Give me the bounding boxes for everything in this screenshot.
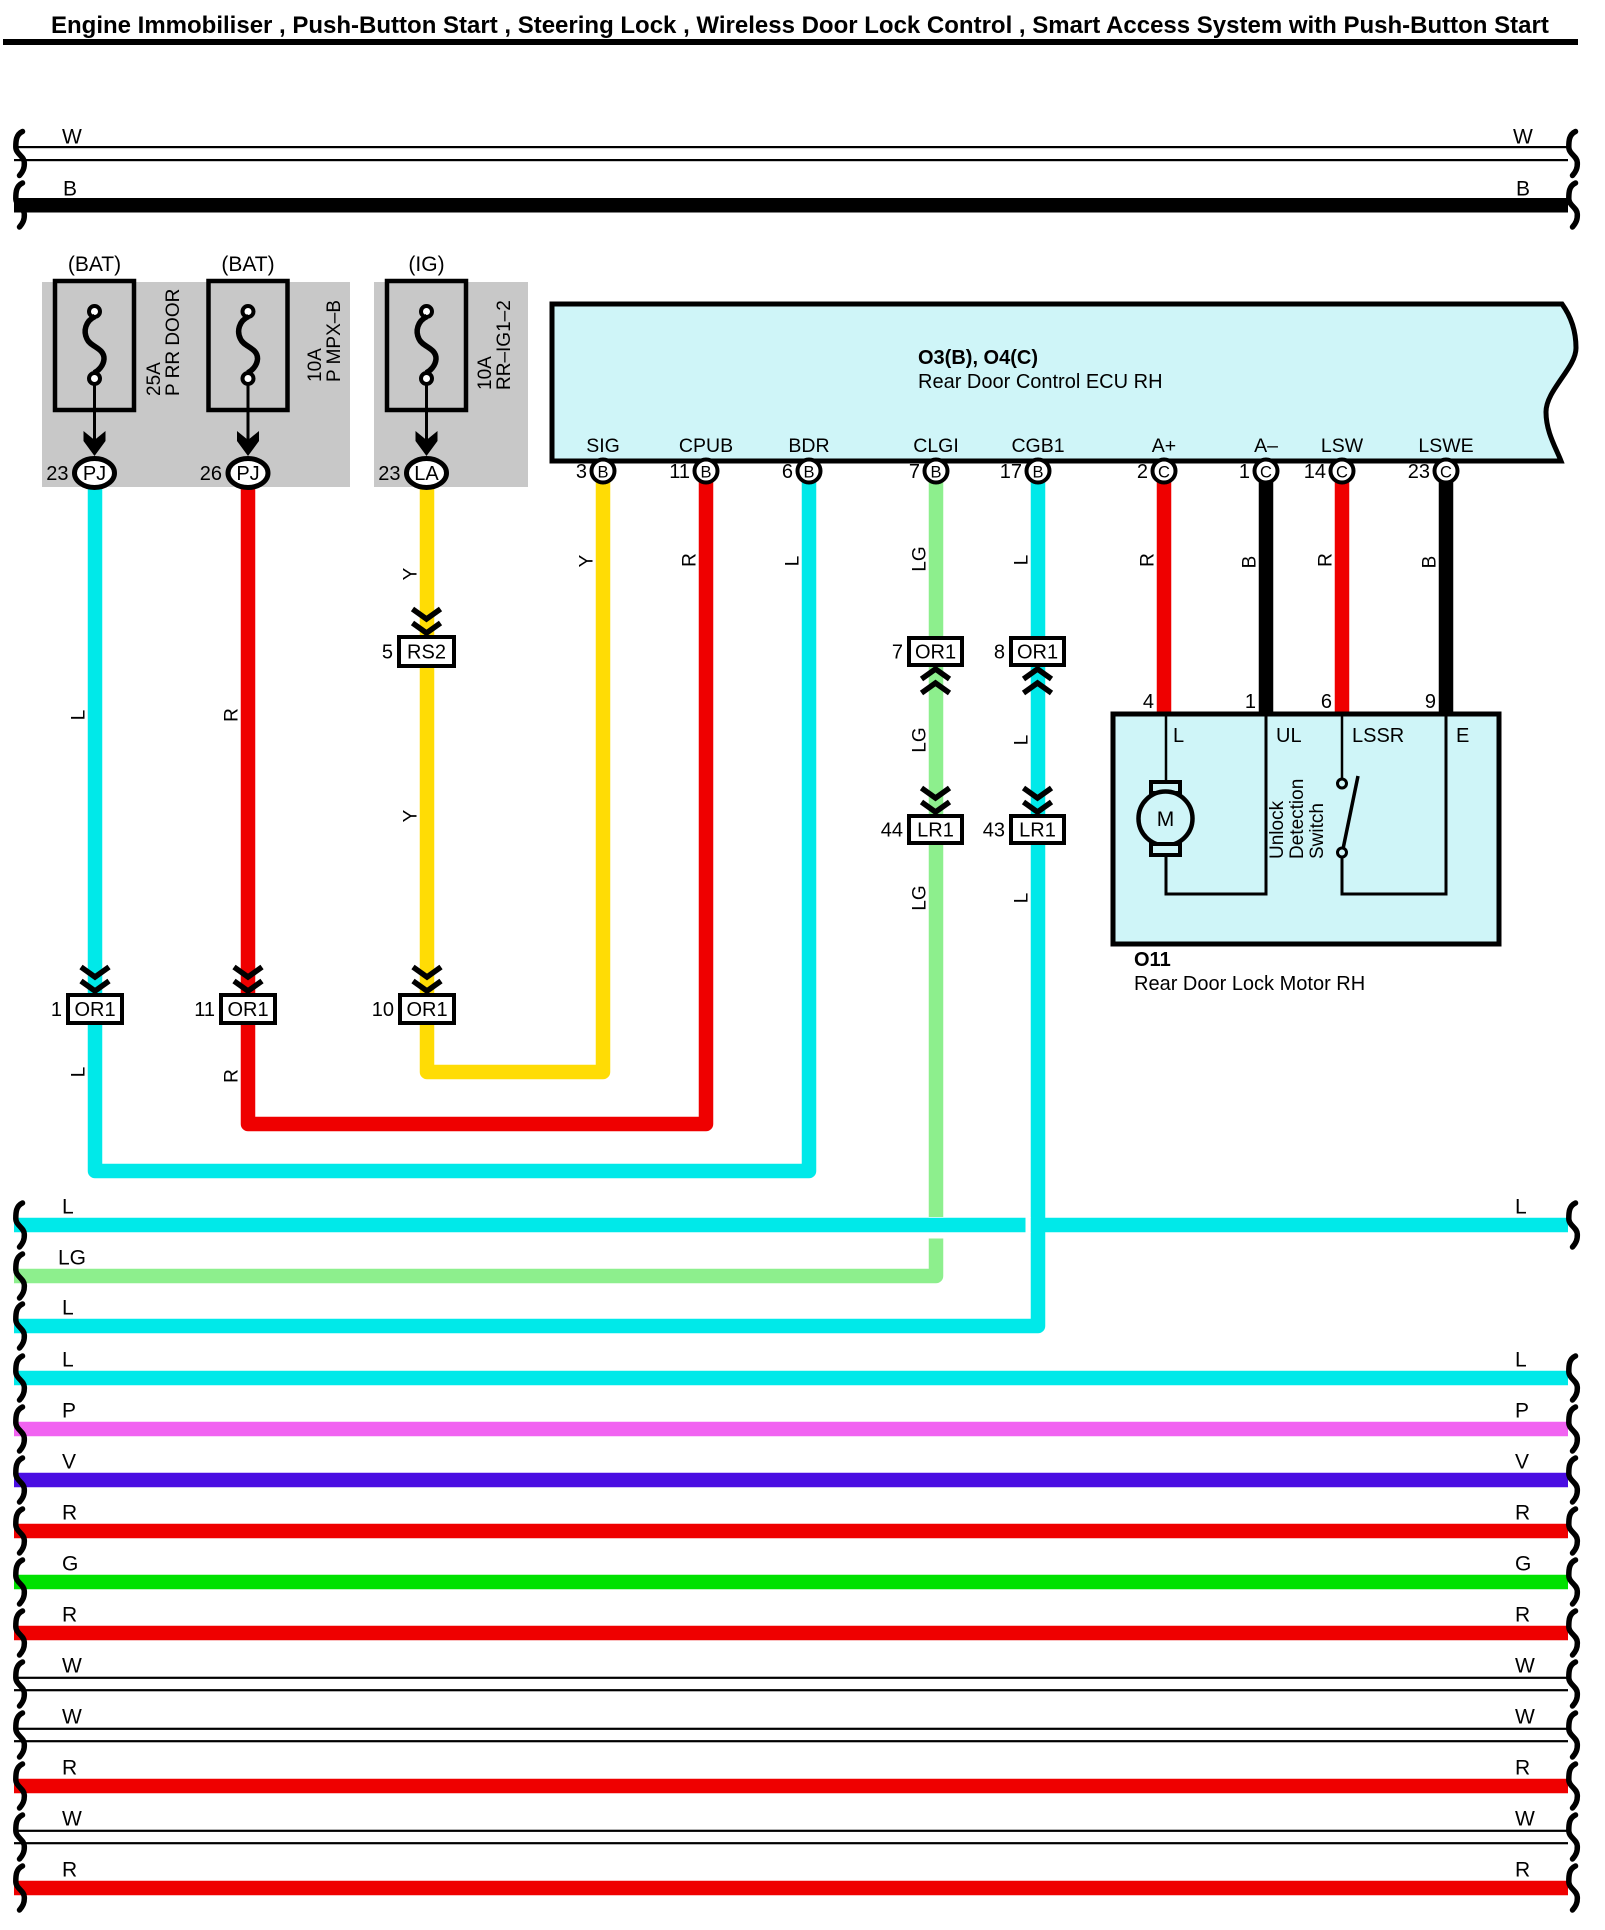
svg-text:P MPX–B: P MPX–B [324, 300, 345, 382]
svg-text:B: B [1240, 556, 1261, 569]
connector PJ pin 26 [228, 459, 268, 488]
wire B : ECU A- to motor pin 1 [1259, 470, 1274, 716]
motor M and loop to UL [1165, 716, 1168, 782]
svg-text:LA: LA [414, 463, 439, 485]
svg-text:R: R [1138, 553, 1159, 567]
bus wire V (y=1480) [14, 1473, 1568, 1488]
svg-text:OR1: OR1 [915, 642, 956, 664]
svg-text:L: L [62, 1196, 74, 1219]
connector 11 OR1 [234, 967, 262, 977]
continuation mark W left [16, 1815, 25, 1859]
svg-text:R: R [680, 553, 701, 567]
svg-text:Detection: Detection [1287, 779, 1308, 859]
svg-text:V: V [62, 1451, 76, 1474]
svg-text:L: L [1515, 1349, 1527, 1372]
svg-text:R: R [1316, 553, 1337, 567]
svg-text:10: 10 [372, 999, 394, 1021]
continuation mark W left [16, 1713, 25, 1757]
svg-text:LG: LG [910, 885, 931, 910]
svg-text:L: L [69, 1067, 90, 1078]
svg-text:V: V [1515, 1451, 1529, 1474]
svg-text:W: W [1513, 126, 1533, 149]
bus wire W (y=1735) [14, 1728, 1568, 1730]
continuation mark P right [1569, 1407, 1578, 1451]
svg-text:Y: Y [401, 567, 422, 580]
continuation mark R right [1569, 1764, 1578, 1808]
bus wire G (y=1582) [14, 1575, 1568, 1590]
svg-text:R: R [62, 1757, 77, 1780]
svg-text:R: R [1515, 1757, 1530, 1780]
svg-text:L: L [1173, 725, 1184, 747]
svg-text:L: L [1012, 555, 1033, 566]
svg-text:L: L [69, 710, 90, 721]
svg-text:LSW: LSW [1321, 435, 1364, 457]
svg-text:Unlock: Unlock [1267, 800, 1288, 859]
svg-text:A+: A+ [1152, 435, 1176, 457]
continuation mark W right [1569, 1713, 1578, 1757]
continuation mark R right [1569, 1866, 1578, 1910]
svg-text:3: 3 [576, 461, 587, 483]
svg-text:25A: 25A [144, 362, 165, 396]
svg-text:R: R [62, 1604, 77, 1627]
svg-text:23: 23 [1408, 461, 1430, 483]
bus wire P (y=1429) [14, 1422, 1568, 1437]
svg-text:CGB1: CGB1 [1011, 435, 1064, 457]
svg-text:6: 6 [782, 461, 793, 483]
svg-text:W: W [62, 1655, 82, 1678]
svg-text:G: G [62, 1553, 78, 1576]
svg-text:14: 14 [1304, 461, 1326, 483]
connector 10 OR1 [413, 967, 441, 977]
svg-text:L: L [1515, 1196, 1527, 1219]
svg-text:OR1: OR1 [227, 999, 268, 1021]
svg-text:Switch: Switch [1307, 803, 1328, 859]
svg-text:23: 23 [378, 463, 400, 485]
continuation mark L left [16, 1356, 25, 1400]
svg-text:9: 9 [1425, 691, 1436, 713]
svg-text:7: 7 [892, 642, 903, 664]
svg-text:W: W [62, 1808, 82, 1831]
svg-text:2: 2 [1137, 461, 1148, 483]
bus wire L (y=1378) [14, 1371, 1568, 1386]
svg-text:Y: Y [577, 554, 598, 567]
continuation mark R left [16, 1764, 25, 1808]
svg-text:10A: 10A [305, 348, 326, 382]
svg-text:B: B [930, 464, 941, 482]
svg-text:R: R [62, 1859, 77, 1882]
svg-text:B: B [700, 464, 711, 482]
svg-text:W: W [62, 126, 82, 149]
ECU O3(B), O4(C) Rear Door Control ECU RH [552, 304, 1576, 461]
svg-text:11: 11 [194, 999, 215, 1021]
wire L : ECU CGB1 down to L bus (row 3) [14, 470, 1038, 1326]
svg-text:OR1: OR1 [74, 999, 115, 1021]
svg-text:11: 11 [669, 461, 690, 483]
svg-text:L: L [62, 1297, 74, 1320]
svg-text:R: R [1515, 1502, 1530, 1525]
svg-text:W: W [1515, 1808, 1535, 1831]
bus wire R (y=1786) [14, 1779, 1568, 1794]
svg-text:43: 43 [983, 820, 1005, 842]
connector 7 OR1 [909, 638, 962, 665]
continuation mark R right [1569, 1509, 1578, 1553]
svg-text:R: R [222, 708, 243, 722]
connector 43 LR1 [1024, 788, 1052, 798]
continuation mark L right [1569, 1356, 1578, 1400]
svg-text:PJ: PJ [83, 463, 106, 485]
svg-text:UL: UL [1276, 725, 1302, 747]
svg-text:Y: Y [401, 809, 422, 822]
continuation mark V left [16, 1458, 25, 1502]
connector 1 OR1 [81, 967, 109, 977]
svg-text:6: 6 [1321, 691, 1332, 713]
svg-text:M: M [1157, 808, 1175, 831]
continuation mark W right [1569, 1662, 1578, 1706]
svg-text:Rear Door Lock Motor RH: Rear Door Lock Motor RH [1134, 973, 1365, 995]
bus wire W (top) [14, 146, 1568, 148]
svg-text:CLGI: CLGI [913, 435, 959, 457]
continuation mark L left [16, 1304, 25, 1348]
svg-text:23: 23 [46, 463, 68, 485]
svg-text:44: 44 [881, 820, 903, 842]
fuse block background 1 [42, 282, 350, 487]
svg-text:OR1: OR1 [406, 999, 447, 1021]
svg-text:OR1: OR1 [1017, 642, 1058, 664]
continuation mark W right [1569, 132, 1578, 176]
connector PJ pin 23 [75, 459, 115, 488]
svg-text:R: R [222, 1069, 243, 1083]
svg-text:R: R [1515, 1859, 1530, 1882]
bus wire B (top) [14, 198, 1568, 213]
fuse block background 2 [374, 282, 528, 487]
svg-text:LG: LG [910, 546, 931, 571]
wire R : ECU A+ to motor pin 4 [1157, 470, 1172, 716]
svg-text:LSSR: LSSR [1352, 725, 1404, 747]
svg-text:1: 1 [1239, 461, 1250, 483]
svg-text:5: 5 [382, 642, 393, 664]
svg-text:4: 4 [1143, 691, 1154, 713]
svg-text:1: 1 [51, 999, 62, 1021]
wire LG : ECU CLGI down to LG bus [14, 470, 936, 1276]
svg-text:C: C [1260, 464, 1272, 482]
svg-text:W: W [1515, 1706, 1535, 1729]
wire R : fuse P MPX-B to ECU CPUB [248, 470, 706, 1124]
svg-text:C: C [1440, 464, 1452, 482]
wire B : ECU LSWE to motor pin 9 [1439, 470, 1454, 716]
svg-text:O3(B), O4(C): O3(B), O4(C) [918, 347, 1038, 369]
connector 8 OR1 [1011, 638, 1064, 665]
svg-text:W: W [1515, 1655, 1535, 1678]
svg-text:L: L [783, 556, 804, 567]
bus wire L (row 1) [14, 1217, 1568, 1239]
connector 5 RS2 [413, 609, 441, 619]
svg-text:E: E [1456, 725, 1469, 747]
bus wire R (y=1531) [14, 1524, 1568, 1539]
svg-text:10A: 10A [475, 356, 496, 390]
svg-text:P RR DOOR: P RR DOOR [163, 289, 184, 396]
continuation mark W left [16, 132, 25, 176]
svg-text:C: C [1336, 464, 1348, 482]
continuation mark L right [1569, 1203, 1578, 1247]
svg-text:G: G [1515, 1553, 1531, 1576]
bus wire W (y=1837) [14, 1830, 1568, 1832]
svg-text:(IG): (IG) [408, 253, 444, 276]
continuation mark G left [16, 1560, 25, 1604]
svg-text:B: B [1420, 556, 1441, 569]
svg-text:LSWE: LSWE [1418, 435, 1473, 457]
continuation mark W right [1569, 1815, 1578, 1859]
connector 44 LR1 [922, 788, 950, 798]
continuation mark LG left [16, 1254, 25, 1298]
svg-text:CPUB: CPUB [679, 435, 733, 457]
svg-text:R: R [1515, 1604, 1530, 1627]
svg-text:O11: O11 [1134, 949, 1171, 971]
svg-text:B: B [63, 178, 77, 201]
continuation mark L left [16, 1203, 25, 1247]
svg-text:P: P [1515, 1400, 1529, 1423]
svg-text:17: 17 [1000, 461, 1022, 483]
svg-text:W: W [62, 1706, 82, 1729]
motor assembly O11 Rear Door Lock Motor RH [1113, 714, 1499, 944]
svg-text:L: L [62, 1349, 74, 1372]
continuation mark R right [1569, 1611, 1578, 1655]
continuation mark W left [16, 1662, 25, 1706]
svg-text:LG: LG [910, 727, 931, 752]
connector LA pin 23 [407, 459, 447, 488]
svg-text:BDR: BDR [788, 435, 829, 457]
svg-text:B: B [1032, 464, 1043, 482]
svg-text:P: P [62, 1400, 76, 1423]
svg-text:7: 7 [909, 461, 920, 483]
svg-text:LR1: LR1 [917, 820, 954, 842]
wire L : fuse P RR DOOR to ECU BDR [95, 470, 809, 1171]
svg-text:A–: A– [1254, 435, 1278, 457]
svg-text:LG: LG [58, 1247, 86, 1270]
unlock detection switch [1341, 716, 1344, 778]
bus wire R (y=1888) [14, 1881, 1568, 1896]
svg-text:B: B [803, 464, 814, 482]
continuation mark V right [1569, 1458, 1578, 1502]
continuation mark G right [1569, 1560, 1578, 1604]
svg-text:L: L [1012, 893, 1033, 904]
svg-text:RR–IG1–2: RR–IG1–2 [494, 300, 515, 390]
continuation mark R left [16, 1611, 25, 1655]
bus wire W (y=1684) [14, 1677, 1568, 1679]
svg-text:PJ: PJ [236, 463, 259, 485]
svg-text:SIG: SIG [586, 435, 620, 457]
svg-text:Rear Door Control ECU RH: Rear Door Control ECU RH [918, 371, 1163, 393]
svg-text:(BAT): (BAT) [221, 253, 274, 276]
svg-text:26: 26 [200, 463, 222, 485]
wire Y : fuse RR-IG1-2 to ECU SIG [427, 470, 603, 1072]
svg-text:B: B [1516, 178, 1530, 201]
wire R : ECU LSW to motor pin 6 [1335, 470, 1350, 716]
svg-text:L: L [1012, 735, 1033, 746]
continuation mark B left [16, 183, 25, 227]
continuation mark P left [16, 1407, 25, 1451]
svg-text:8: 8 [994, 642, 1005, 664]
svg-text:B: B [597, 464, 608, 482]
bus wire R (y=1633) [14, 1626, 1568, 1641]
crossing notch [1026, 1217, 1031, 1233]
svg-text:C: C [1158, 464, 1170, 482]
svg-text:1: 1 [1245, 691, 1256, 713]
svg-text:LR1: LR1 [1019, 820, 1056, 842]
continuation mark R left [16, 1509, 25, 1553]
svg-text:R: R [62, 1502, 77, 1525]
svg-text:Engine Immobiliser , Push-Butt: Engine Immobiliser , Push-Button Start ,… [51, 12, 1549, 39]
svg-text:RS2: RS2 [407, 642, 446, 664]
continuation mark R left [16, 1866, 25, 1910]
continuation mark B right [1569, 183, 1578, 227]
svg-text:(BAT): (BAT) [68, 253, 121, 276]
